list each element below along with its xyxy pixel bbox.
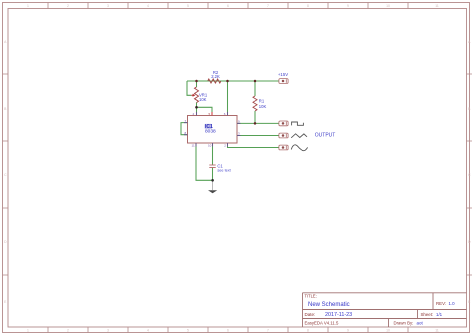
svg-text:aot: aot <box>417 321 424 326</box>
wire C1 to ground node <box>212 168 214 181</box>
svg-text:2: 2 <box>67 329 69 333</box>
svg-text:8: 8 <box>307 4 309 8</box>
resistor R2 <box>197 70 228 83</box>
connector square output P1 <box>279 121 288 126</box>
pin 9 (right-upper, square out) <box>237 120 241 124</box>
wire R1 top lead <box>254 81 256 96</box>
pin 8 (left-lower) <box>184 131 188 135</box>
svg-text:5: 5 <box>187 4 189 8</box>
wire R1 bottom to square-out net <box>254 111 256 124</box>
capacitor C1 <box>209 164 231 173</box>
svg-text:Drawn By:: Drawn By: <box>394 321 414 326</box>
svg-text:7: 7 <box>267 329 269 333</box>
connector triangle output P2 <box>279 133 288 138</box>
wire VR1 bottom to node <box>196 103 198 108</box>
pin 2 (bottom-right, sine out) <box>224 143 227 147</box>
wire power rail +15V <box>187 80 279 82</box>
svg-text:TITLE:: TITLE: <box>305 294 317 299</box>
svg-text:10: 10 <box>386 329 390 333</box>
op-amp / function generator IC1 body <box>188 116 238 144</box>
node junction rail-VR1 <box>195 80 198 83</box>
svg-text:New Schematic: New Schematic <box>308 302 350 308</box>
wire loop joining pins 7 and 8 <box>181 123 188 135</box>
wire node jog to IC pin 5 <box>197 107 213 112</box>
svg-text:10K: 10K <box>199 97 207 102</box>
svg-text:4: 4 <box>147 4 149 8</box>
connector sine output P3 <box>279 145 288 150</box>
svg-text:11: 11 <box>192 143 195 147</box>
wire sine out net from pin 2 <box>228 143 280 148</box>
node junction VR1 bottom <box>195 106 198 109</box>
node junction rail-R1 <box>254 80 257 83</box>
triangle wave annotation <box>291 134 307 138</box>
square wave annotation <box>292 122 304 125</box>
connector +15V <box>278 72 288 84</box>
pin 10 (bottom-middle) <box>208 143 213 147</box>
pin 4 (top-left) <box>193 112 197 116</box>
svg-text:11: 11 <box>435 329 439 333</box>
svg-text:6: 6 <box>227 4 229 8</box>
wire rail to IC pin 6 <box>227 81 229 116</box>
svg-text:REV:: REV: <box>436 301 446 306</box>
svg-text:7: 7 <box>267 4 269 8</box>
node junction R1-square net <box>254 122 257 125</box>
ground <box>208 180 217 193</box>
svg-text:EasyEDA V4.11.5: EasyEDA V4.11.5 <box>305 321 339 326</box>
svg-text:1: 1 <box>27 329 29 333</box>
pin 5 (top-middle, red) <box>209 112 213 116</box>
pin 11 (bottom-left) <box>192 143 197 147</box>
wire pin 10 to C1 <box>212 143 214 165</box>
svg-text:11: 11 <box>435 4 439 8</box>
svg-text:5: 5 <box>187 329 189 333</box>
svg-text:OUTPUT: OUTPUT <box>315 133 336 139</box>
svg-text:3: 3 <box>107 329 109 333</box>
svg-text:1: 1 <box>27 4 29 8</box>
svg-text:10: 10 <box>208 143 212 147</box>
svg-text:2.2K: 2.2K <box>211 74 220 79</box>
pin 6 (top-right) <box>224 112 228 116</box>
svg-text:8038: 8038 <box>205 128 216 134</box>
svg-text:2: 2 <box>67 4 69 8</box>
node junction rail-pin6 <box>226 80 229 83</box>
svg-text:1/1: 1/1 <box>436 312 443 317</box>
svg-text:10K: 10K <box>259 104 267 109</box>
svg-text:see text: see text <box>217 169 231 173</box>
svg-text:9: 9 <box>347 329 349 333</box>
wire node to IC pin 4 <box>196 107 198 115</box>
svg-text:10: 10 <box>386 4 390 8</box>
svg-text:R1: R1 <box>259 99 265 104</box>
svg-text:Date:: Date: <box>305 312 316 317</box>
svg-text:6: 6 <box>227 329 229 333</box>
svg-text:4: 4 <box>147 329 149 333</box>
wire square out net <box>237 122 279 124</box>
pin 3 (right-lower, triangle out) <box>237 132 241 136</box>
svg-text:8: 8 <box>307 329 309 333</box>
title block <box>303 293 467 327</box>
node junction ground net <box>211 179 214 182</box>
sine wave annotation <box>291 145 307 151</box>
svg-text:3: 3 <box>107 4 109 8</box>
svg-text:9: 9 <box>347 4 349 8</box>
pin 7 (left-upper) <box>184 119 188 123</box>
potentiometer VR1 <box>191 87 208 103</box>
svg-text:Sheet:: Sheet: <box>421 312 434 317</box>
wire pin 11 to ground node <box>196 143 213 180</box>
svg-text:+15V: +15V <box>278 72 288 77</box>
svg-text:1.0: 1.0 <box>449 301 456 306</box>
wire left drop to VR1 wiper <box>187 81 191 95</box>
wire triangle out net <box>237 135 279 137</box>
resistor R1 <box>253 96 266 111</box>
svg-text:2017-11-23: 2017-11-23 <box>325 312 352 318</box>
wire VR1 top lead <box>196 81 198 87</box>
